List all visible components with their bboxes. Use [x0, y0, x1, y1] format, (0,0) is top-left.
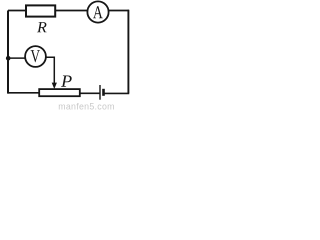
wire battery to rheostat — [80, 92, 100, 94]
letter A — [93, 6, 103, 18]
wire junction to voltmeter — [9, 57, 27, 59]
wire resistor to ammeter — [55, 10, 88, 12]
wire rheostat to bottom-left corner — [8, 92, 39, 94]
letter V — [31, 50, 40, 62]
wire right side — [127, 10, 129, 94]
svg-text:manfen5.com: manfen5.com — [58, 102, 115, 112]
wire ammeter to top-right corner — [109, 10, 130, 12]
wire voltmeter to wiper (right then down) — [46, 57, 54, 83]
battery positive plate (long) — [99, 85, 101, 100]
label R — [37, 22, 47, 32]
wiper arrowhead — [52, 83, 57, 89]
battery negative plate (short thick) — [102, 89, 105, 96]
wire top-left (corner to resistor) — [8, 10, 26, 12]
wire left side — [7, 11, 9, 94]
wire bottom-right (corner to battery) — [104, 92, 129, 94]
voltmeter V circle — [25, 46, 46, 67]
label P — [61, 75, 72, 86]
resistor R box — [26, 5, 55, 16]
node junction dot — [6, 56, 11, 61]
ammeter A circle — [87, 1, 108, 22]
rheostat P box — [39, 89, 80, 96]
